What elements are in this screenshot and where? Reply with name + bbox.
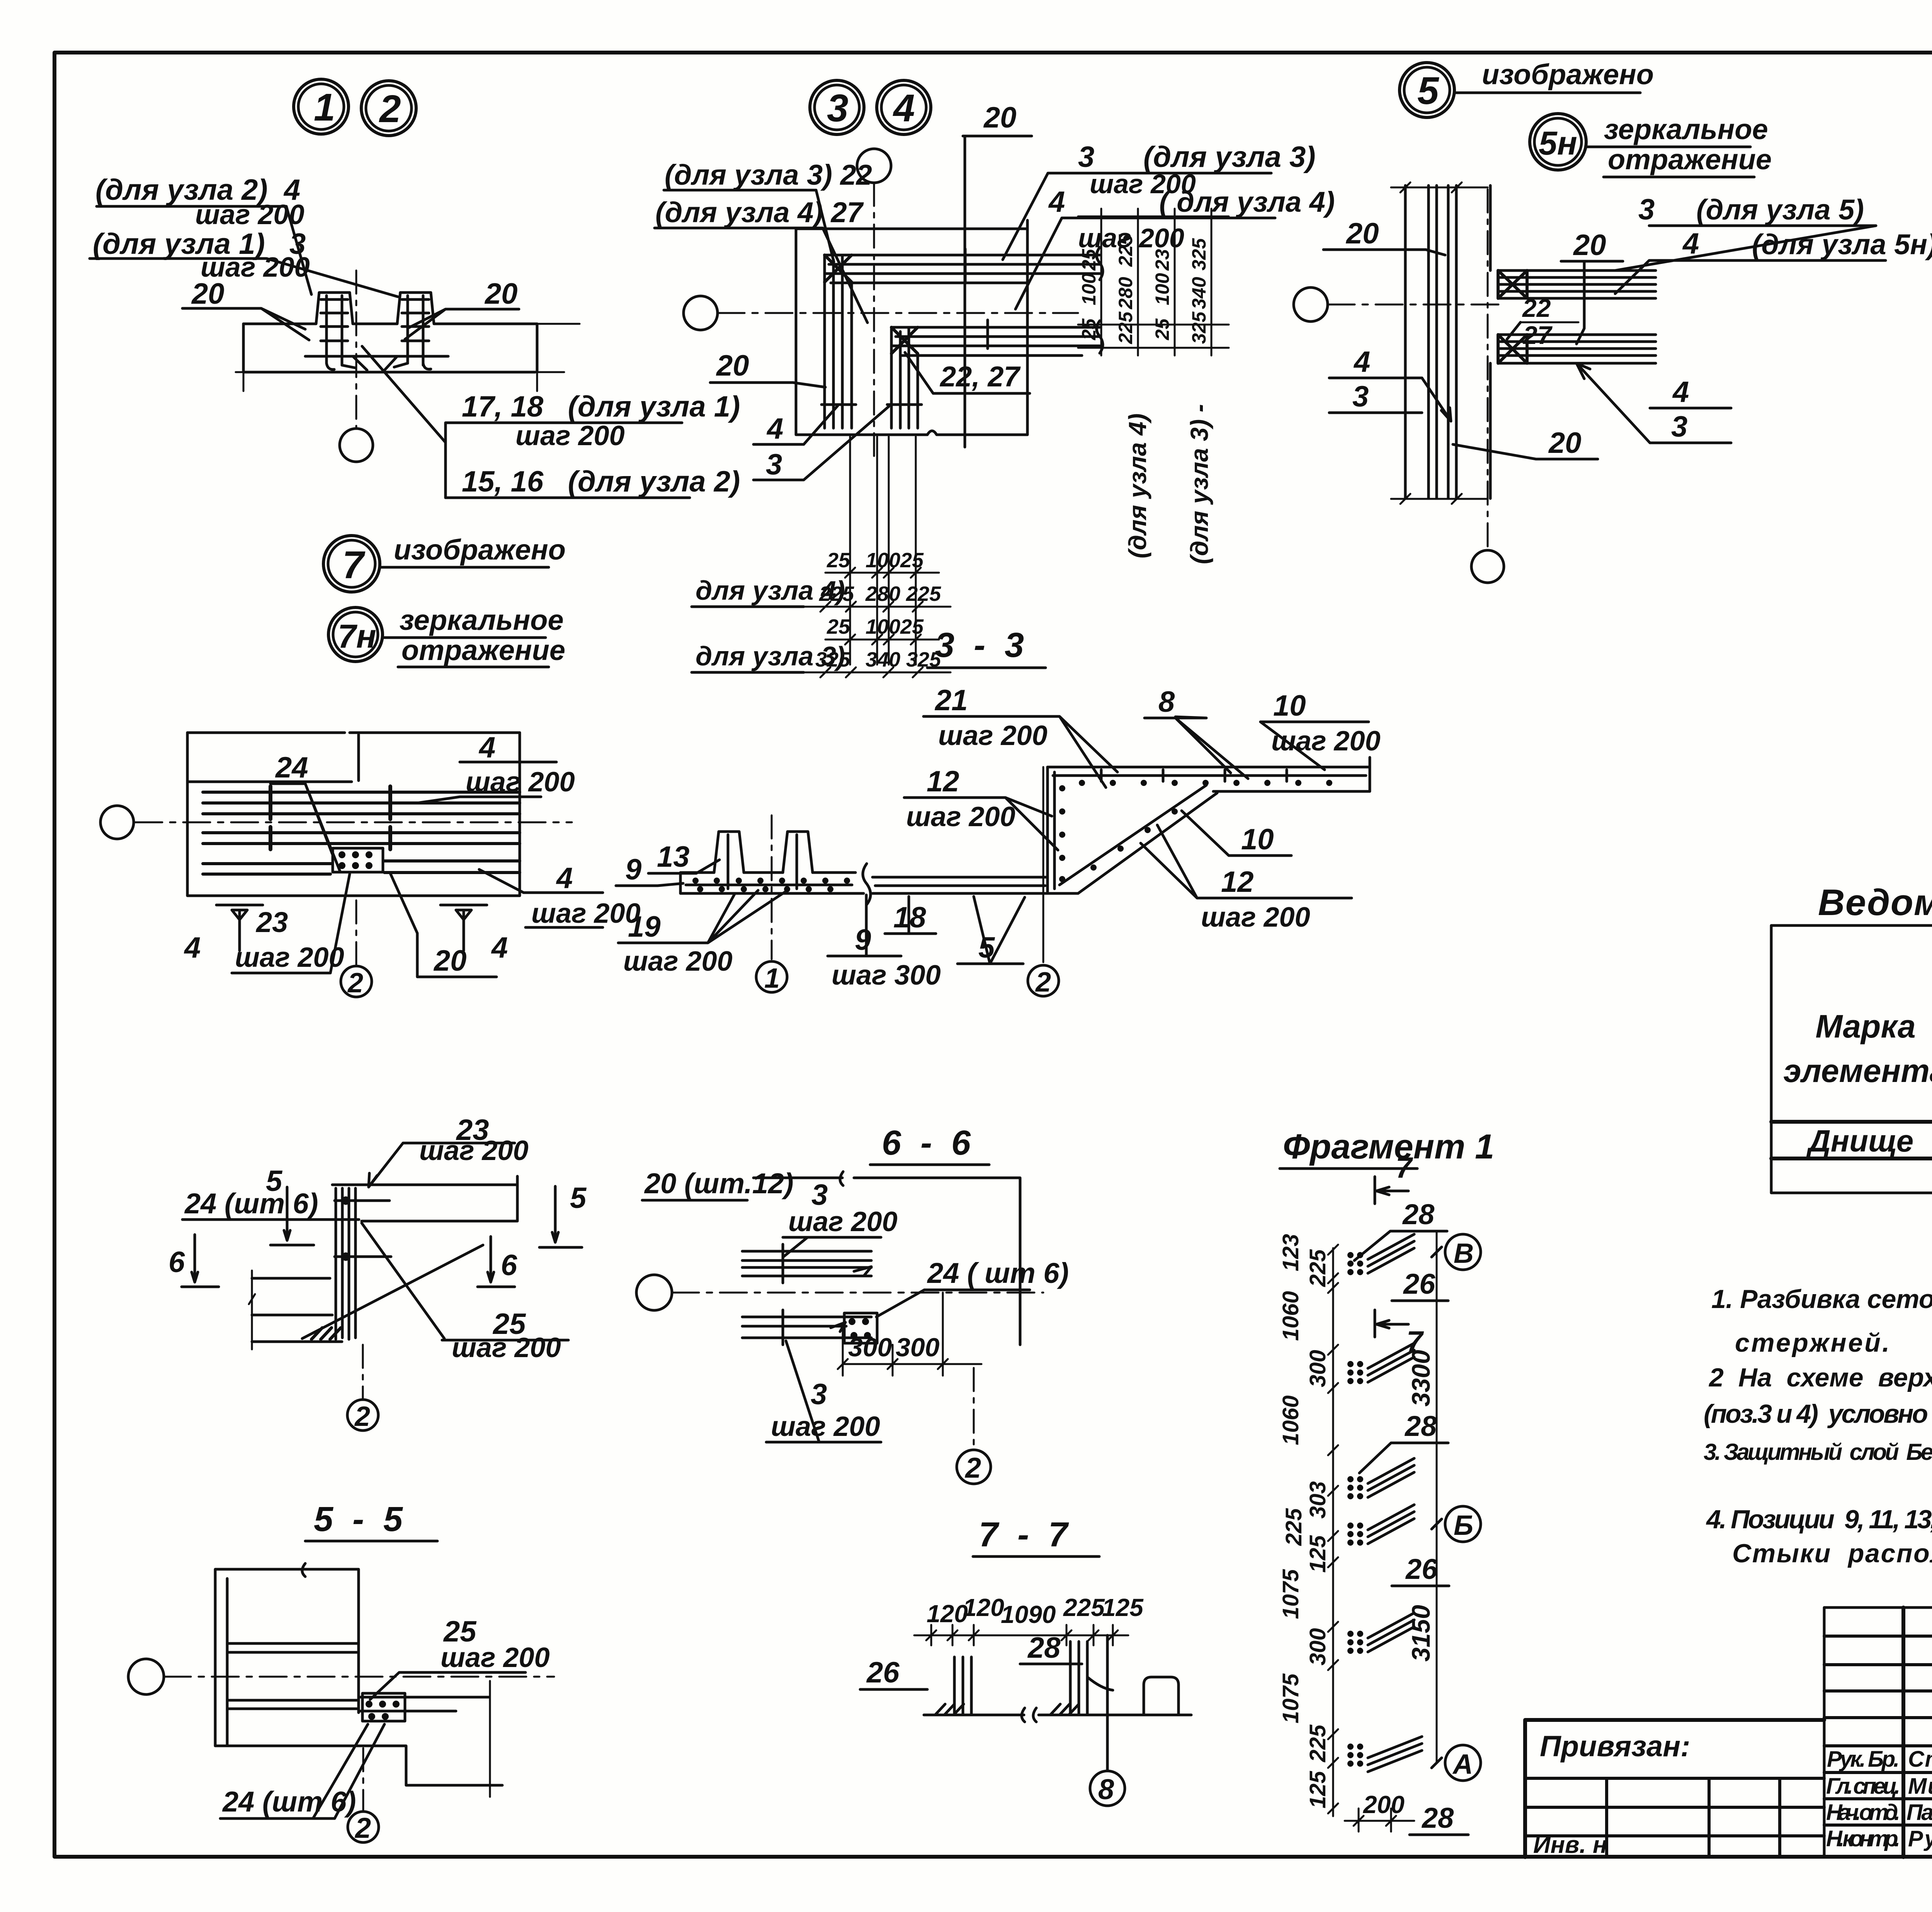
svg-text:отражение: отражение [1608,143,1772,175]
svg-text:1. Разбивка сеток на план-схем: 1. Разбивка сеток на план-схеме армирова… [1711,1284,1932,1314]
svg-text:300: 300 [896,1333,940,1362]
svg-text:(для узла 3) 22: (для узла 3) 22 [665,159,872,191]
axis circle [128,1659,164,1694]
svg-text:10: 10 [1241,823,1274,856]
detail circle 2 [361,81,416,136]
bottom distribution bars [305,356,448,370]
svg-text:Гл. спец.: Гл. спец. [1826,1774,1900,1799]
privyazan block [1525,1720,1824,1857]
svg-text:340: 340 [866,648,900,671]
svg-text:28: 28 [1402,1198,1435,1230]
vertical wall rebar [1429,185,1456,498]
lower branch corner box [1498,335,1527,363]
svg-text:3: 3 [1352,380,1369,413]
rebar cluster 1 [1347,1252,1363,1275]
rebar cluster 4 [1347,1522,1363,1546]
svg-text:24 (шт 6): 24 (шт 6) [222,1786,356,1818]
concrete top lines [332,1176,517,1221]
axis circle left [1294,287,1328,322]
svg-text:изображено: изображено [1482,58,1654,90]
bar ticks [270,786,390,849]
svg-text:1075: 1075 [1278,1569,1303,1619]
svg-text:(для узла 4) 27: (для узла 4) 27 [655,196,864,228]
svg-text:125: 125 [1102,1594,1144,1621]
svg-text:225: 225 [1305,1249,1330,1287]
svg-text:28: 28 [1027,1631,1061,1664]
svg-text:12: 12 [927,765,959,798]
left slab with ribs [680,873,864,893]
svg-text:5 - 5: 5 - 5 [314,1500,403,1539]
svg-text:шаг 200: шаг 200 [515,420,625,451]
inner corner box [891,327,918,354]
svg-text:225: 225 [1063,1594,1105,1621]
axis circle bottom [1487,189,1489,549]
svg-text:340: 340 [1188,277,1210,309]
top dim ticks [1391,182,1488,192]
detail circle 7H [328,607,383,662]
svg-text:225: 225 [1281,1508,1306,1546]
thin slab to wall [872,877,1078,893]
cross leaders X [302,1223,483,1339]
svg-text:17, 18 (для узла 1): 17, 18 (для узла 1) [462,390,740,423]
svg-text:2 На схеме верхней арматур: 2 На схеме верхней арматуры расположение… [1708,1363,1932,1392]
svg-text:2: 2 [347,968,363,999]
svg-text:шаг 200: шаг 200 [235,942,344,973]
svg-text:9: 9 [625,853,641,886]
svg-text:шаг 200: шаг 200 [452,1332,561,1363]
svg-text:3 - 3: 3 - 3 [935,626,1024,665]
svg-text:1075: 1075 [1278,1673,1303,1723]
svg-text:4: 4 [556,862,573,895]
rebar cluster 5 [1347,1631,1363,1654]
svg-text:4. Позиции 9, 11, 13, 14, 20: 4. Позиции 9, 11, 13, 14, 20 стыкуются п… [1706,1505,1932,1534]
svg-text:Н. контр.: Н. контр. [1826,1826,1900,1851]
rib bars [728,835,797,889]
svg-text:Днище: Днище [1806,1124,1913,1158]
top branch corner box [1498,270,1527,298]
svg-text:шаг 200: шаг 200 [419,1135,529,1166]
ext line right [489,1681,491,1797]
node circle [340,429,373,462]
axis 1 [771,815,773,959]
svg-text:7 - 7: 7 - 7 [979,1516,1069,1554]
title block outer [1824,1606,1932,1857]
right bar group [1070,1642,1087,1715]
svg-text:19: 19 [628,910,661,943]
svg-text:4: 4 [1048,185,1065,218]
svg-text:шаг 200: шаг 200 [906,801,1015,832]
svg-text:2: 2 [1035,967,1051,998]
svg-text:303: 303 [1305,1481,1330,1519]
svg-text:13: 13 [657,840,690,873]
svg-text:125: 125 [1305,1771,1330,1808]
svg-text:Марка: Марка [1815,1008,1915,1044]
rebar cluster 2 [1347,1361,1363,1384]
svg-text:3: 3 [827,87,849,130]
svg-text:3: 3 [1671,410,1687,443]
svg-text:100: 100 [1078,273,1100,305]
svg-text:20: 20 [1548,427,1582,459]
svg-text:(для узла 5): (для узла 5) [1696,194,1864,226]
svg-text:(для узла 4): (для узла 4) [1124,413,1151,558]
svg-text:изображено: изображено [394,534,566,566]
svg-text:4: 4 [766,412,783,445]
lower branch bundle [1498,335,1656,363]
svg-text:21: 21 [934,684,968,717]
svg-text:100: 100 [866,549,900,572]
rebar cluster 6 [1347,1744,1363,1767]
svg-text:шаг 200: шаг 200 [1201,902,1310,933]
bar tie marks [821,249,988,405]
svg-text:А: А [1452,1749,1473,1780]
svg-text:120: 120 [927,1600,968,1628]
svg-text:25: 25 [1151,318,1173,340]
vertical dim chains right of corner [1078,216,1229,348]
svg-text:шаг 200: шаг 200 [771,1411,880,1442]
grid circle В [1445,1234,1481,1270]
svg-text:Стыки располагаются вразбеж: Стыки располагаются вразбежку. [1732,1539,1932,1568]
bottom dim ticks [1391,494,1488,504]
svg-text:24 ( шт 6): 24 ( шт 6) [927,1257,1069,1289]
top break [302,1563,305,1577]
svg-text:Руссин: Руссин [1908,1826,1932,1851]
svg-text:элемента: элемента [1783,1053,1932,1089]
svg-text:12: 12 [1221,866,1254,898]
rebar cluster 3 [1347,1476,1363,1499]
svg-text:25: 25 [827,615,850,638]
corner detail concrete outline [796,220,1027,435]
svg-text:3: 3 [766,448,782,481]
dimension ext lines [236,324,258,391]
rib 2 [783,832,813,873]
svg-text:4: 4 [478,731,495,764]
svg-text:1: 1 [314,86,335,129]
notch outline [215,1746,502,1785]
axis line horizontal [135,822,572,823]
svg-text:для узла 4): для узла 4) [696,575,845,606]
svg-text:300: 300 [1305,1350,1330,1387]
anchor bars with dots [359,1697,489,1711]
svg-text:Стежко: Стежко [1908,1747,1932,1772]
svg-text:123: 123 [1278,1234,1303,1271]
svg-text:6: 6 [501,1249,517,1282]
svg-text:3: 3 [1638,193,1655,226]
svg-text:325: 325 [1188,311,1210,344]
svg-text:280: 280 [1115,277,1136,310]
bottom hatch [311,1328,341,1339]
svg-text:Ведомость расхода стали на эле: Ведомость расхода стали на элемент, кг [1818,882,1932,923]
svg-text:300: 300 [1305,1628,1330,1665]
svg-text:28: 28 [1404,1410,1437,1442]
rebar cage tooth 2 [402,296,429,365]
svg-text:8: 8 [1158,686,1175,718]
svg-text:Панченко: Панченко [1906,1800,1932,1825]
svg-text:20: 20 [1345,217,1379,250]
svg-text:27: 27 [1522,321,1553,349]
svg-text:1090: 1090 [1001,1601,1056,1628]
svg-text:4: 4 [1353,345,1370,378]
staff table rows [1824,1635,1932,1638]
svg-text:7: 7 [342,543,366,587]
svg-text:125: 125 [1305,1535,1330,1573]
svg-text:26: 26 [866,1656,900,1689]
wall rebar [1053,772,1056,889]
svg-text:1060: 1060 [1278,1291,1303,1341]
axis circle 2 below [355,900,357,965]
top bar bundle [742,1250,871,1253]
line to circle 8 [1106,1635,1109,1771]
svg-text:Привязан:: Привязан: [1540,1730,1690,1763]
svg-text:100: 100 [1151,273,1173,305]
svg-text:3. Защитный слой Бетона для: 3. Защитный слой Бетона для арматуры пли… [1704,1439,1932,1465]
svg-text:25: 25 [1078,248,1100,271]
svg-text:шаг 200: шаг 200 [440,1642,550,1673]
svg-text:225: 225 [1115,234,1136,267]
svg-text:7: 7 [1396,1152,1413,1184]
svg-text:шаг 200: шаг 200 [938,720,1048,751]
svg-text:(для узла 5н): (для узла 5н) [1696,228,1932,260]
grid circle А [1445,1745,1481,1781]
axis circle 2 [362,1345,364,1400]
svg-text:2: 2 [379,87,401,131]
svg-text:9: 9 [855,924,871,956]
svg-text:1060: 1060 [1278,1395,1303,1445]
svg-text:10: 10 [1273,689,1306,722]
svg-text:280: 280 [865,582,900,606]
top branch bundle [1498,270,1656,298]
svg-text:2: 2 [354,1401,370,1432]
svg-text:Рук. Бр.: Рук. Бр. [1827,1747,1900,1772]
svg-text:6: 6 [168,1246,185,1279]
wall outline [215,1569,359,1746]
svg-text:25: 25 [1078,318,1100,340]
svg-text:шаг 200: шаг 200 [788,1206,898,1237]
svg-text:(поз.3 и 4) условно непоказа: (поз.3 и 4) условно непоказано, см. узлы… [1704,1399,1932,1429]
svg-text:стержней.: стержней. [1735,1328,1889,1357]
slab rebar dots row1 [692,878,850,892]
grid circle Б [1445,1506,1481,1542]
svg-text:1: 1 [764,963,780,994]
svg-text:8: 8 [1098,1773,1114,1805]
detail circle 5H [1530,114,1586,170]
grid line В-Б-А [1436,1233,1438,1763]
outer corner box [825,255,852,282]
svg-text:20: 20 [484,277,518,310]
svg-text:225: 225 [1305,1724,1330,1762]
lower bundle [742,1316,871,1318]
svg-text:шаг 200: шаг 200 [466,767,575,798]
detail circle 1 [294,79,349,134]
svg-text:20: 20 [433,944,467,977]
svg-text:Фрагмент 1: Фрагмент 1 [1283,1128,1494,1166]
concrete left steps [252,1278,342,1342]
svg-text:шаг 200: шаг 200 [195,199,304,230]
outer corner L rebar [825,255,1100,274]
wall left face [1046,767,1049,893]
svg-text:( для узла 4): ( для узла 4) [1159,186,1335,218]
slab bottom bar [686,884,852,886]
svg-text:20: 20 [716,349,749,382]
rib 1 [714,832,744,873]
wall rebar lines [229,1643,359,1709]
flange bar ticks [1101,770,1287,781]
lower slab lines [203,861,520,874]
node axis circle left [684,296,718,330]
step profile [1144,1677,1179,1715]
svg-text:25: 25 [827,549,850,572]
left bar group [954,1657,971,1715]
axis line [164,1676,554,1678]
detail circle 4 [877,80,931,134]
top flange [1048,757,1370,791]
bundle break marks [1097,247,1103,353]
staff table columns [1901,1608,1905,1857]
svg-text:20: 20 [191,277,224,310]
svg-text:23: 23 [255,906,288,938]
svg-text:4: 4 [893,87,915,130]
svg-text:(для узла 3) -: (для узла 3) - [1185,404,1213,564]
svg-text:2: 2 [354,1812,371,1844]
svg-text:200: 200 [1363,1791,1405,1818]
rebar bars vertical [336,1188,355,1339]
svg-text:20 (шт.12): 20 (шт.12) [644,1167,794,1199]
svg-text:Б: Б [1454,1510,1473,1541]
svg-text:зеркальное: зеркальное [1604,113,1768,145]
svg-text:2: 2 [964,1452,981,1484]
node axis line [355,270,357,427]
upper rebar bundle [203,792,520,814]
svg-text:15, 16 (для узла 2): 15, 16 (для узла 2) [462,465,740,498]
detail circle 3 [810,80,864,134]
concrete outline [187,733,520,782]
anchor block [333,848,383,872]
svg-text:22: 22 [1522,294,1551,322]
slab break [863,864,871,905]
detail circle 7 [323,536,380,592]
svg-text:4: 4 [184,931,201,964]
svg-text:для узла 3): для узла 3) [696,641,845,671]
ground line [924,1714,1191,1716]
svg-text:3: 3 [811,1378,827,1411]
svg-text:В: В [1454,1238,1474,1269]
svg-text:6 - 6: 6 - 6 [882,1124,971,1162]
svg-text:22, 27: 22, 27 [939,361,1021,393]
top concrete line [753,1178,1020,1345]
svg-text:Инв. н: Инв. н [1533,1832,1607,1858]
left dim line [1332,1248,1334,1816]
node axis circle top [857,149,891,183]
svg-text:325: 325 [1188,238,1210,270]
svg-text:225: 225 [1115,311,1136,344]
svg-text:5: 5 [1417,69,1439,112]
svg-text:зеркальное: зеркальное [400,604,564,636]
axis circle 2 [973,1368,975,1450]
rebar cage tooth 1 [321,296,348,365]
svg-text:24 (шт 6): 24 (шт 6) [184,1187,318,1220]
axis 2 [1043,767,1044,962]
detail circle 5 [1400,63,1454,117]
svg-text:шаг 200: шаг 200 [623,946,733,977]
svg-text:5н: 5н [1539,125,1577,162]
svg-text:20: 20 [983,101,1017,134]
anchor block [844,1313,877,1343]
svg-text:23: 23 [1151,249,1173,271]
svg-text:шаг 200: шаг 200 [531,898,641,929]
T-junction: vertical wall faces [1405,185,1490,498]
svg-text:4: 4 [491,931,508,964]
svg-text:отражение: отражение [401,634,565,666]
svg-text:шаг 300: шаг 300 [832,960,941,991]
diagonal member [1078,793,1217,893]
steel table frame [1771,925,1932,1193]
svg-text:26: 26 [1403,1268,1435,1300]
bottom ext/dim [216,904,487,907]
svg-text:26: 26 [1405,1553,1438,1585]
svg-text:шаг 200: шаг 200 [1271,726,1381,757]
svg-text:Миллер: Миллер [1908,1774,1932,1799]
concrete profile node 1-2 [243,293,537,324]
axis [636,1275,672,1310]
svg-text:Нач. отд.: Нач. отд. [1826,1800,1900,1825]
svg-text:24: 24 [275,751,308,784]
svg-text:120: 120 [963,1594,1004,1621]
ties [335,1201,391,1257]
axis circle [100,806,134,839]
svg-text:7н: 7н [338,618,376,655]
dim extension verticals below corner [850,437,916,665]
svg-text:28: 28 [1421,1802,1454,1834]
inner corner L rebar [891,327,1100,346]
svg-text:4: 4 [1672,376,1689,408]
svg-text:5: 5 [570,1182,587,1215]
svg-text:20: 20 [1573,229,1606,262]
axis circle 2 [362,1748,364,1811]
svg-text:300: 300 [848,1333,892,1362]
